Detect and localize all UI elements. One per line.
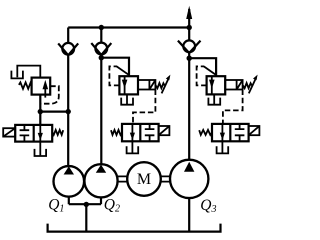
- RV3 pilot connector: [204, 66, 216, 75]
- RV2 drain tank: [126, 94, 128, 104]
- wire Q2 suction: [100, 197, 102, 204]
- relief valve RV1 body: [32, 78, 51, 95]
- wire suction down: [85, 204, 87, 231]
- wire to RV3: [189, 58, 216, 76]
- wire relief tap horizontal: [40, 110, 68, 112]
- RV3 adjustable spring: [243, 83, 252, 88]
- RV2 adjustable spring: [155, 83, 164, 88]
- check valve CV3: [183, 40, 195, 52]
- wire Q3 suction: [188, 198, 190, 232]
- node dot top line / branch3: [187, 25, 192, 30]
- RV3 spring box: [225, 80, 242, 90]
- DV2 blocked ports: [145, 124, 155, 141]
- wire to RV2: [101, 58, 129, 76]
- wire branch2 main vertical: [100, 55, 102, 164]
- directional valve DV1 body: [15, 125, 52, 142]
- RV2 internal flow arrow: [124, 76, 126, 94]
- wire output riser: [188, 9, 190, 28]
- DV2 spring: [111, 130, 122, 135]
- RV2 adjust arrow: [162, 78, 169, 94]
- node dot top line / branch2: [99, 25, 104, 30]
- wire branch3 down to check valve: [188, 28, 190, 42]
- DV1 flow arrow: [39, 125, 41, 142]
- check valve CV1: [62, 43, 74, 55]
- relief valve RV2 body: [119, 76, 138, 94]
- RV1 arrow port stub: [44, 95, 46, 98]
- shaft Q2-M: [118, 176, 128, 181]
- wire Q1 suction: [68, 197, 70, 205]
- pump Q3: [170, 160, 208, 198]
- node dot branch2 relief tap: [99, 55, 104, 60]
- RV3 internal flow arrow: [211, 76, 213, 94]
- RV1 spring: [19, 82, 32, 88]
- wire top pressure line: [68, 26, 189, 28]
- DV3 tank: [221, 141, 223, 153]
- RV1 pilot line dashed: [40, 86, 59, 104]
- DV1 blocked ports: [20, 125, 30, 142]
- RV1 drain tank: [11, 71, 23, 79]
- node dot relief tap: [38, 109, 43, 114]
- svg-text:Q1: Q1: [48, 197, 64, 215]
- DV3 solenoid: [249, 126, 260, 135]
- RV2 pilot connector: [117, 66, 129, 75]
- pump Q1: [54, 166, 85, 197]
- wire branch1 main vertical: [67, 55, 69, 166]
- RV2 vent line dashed to DV2: [133, 90, 155, 124]
- DV1 spring: [52, 130, 63, 135]
- DV2 flow arrow: [131, 124, 133, 141]
- RV3 drain tank: [213, 94, 215, 104]
- svg-text:Q2: Q2: [104, 197, 120, 215]
- DV1 solenoid: [3, 128, 15, 136]
- RV1 bottom port wire to DV1: [39, 95, 41, 125]
- node dot branch1 relief tap: [66, 109, 71, 114]
- motor M: [127, 162, 161, 196]
- DV2 solenoid: [159, 126, 170, 135]
- directional valve DV2 body: [122, 124, 159, 141]
- RV1 top drain port: [17, 66, 40, 78]
- DV2 tank: [131, 141, 133, 153]
- DV3 spring: [199, 130, 212, 135]
- relief valve RV3 body: [207, 76, 226, 94]
- pump Q2: [84, 164, 117, 197]
- shaft M-Q3: [161, 176, 170, 181]
- wire branch3 main vertical: [188, 53, 190, 160]
- node dot branch3 relief tap: [187, 56, 192, 61]
- wire branch1 down to check valve: [67, 28, 69, 44]
- RV2 spring box: [138, 80, 155, 90]
- DV3 flow arrow: [221, 124, 223, 141]
- check valve CV2: [95, 43, 107, 55]
- directional valve DV3 body: [212, 124, 249, 141]
- DV3 blocked ports: [235, 124, 245, 141]
- RV3 vent line dashed to DV3: [223, 90, 243, 124]
- output arrow head: [186, 6, 192, 19]
- DV1 tank: [39, 142, 41, 156]
- wire branch2 down to check valve: [100, 28, 102, 44]
- RV3 adjust arrow: [249, 78, 256, 94]
- tank bottom line: [48, 224, 221, 232]
- wire suction header: [69, 203, 101, 205]
- node dot suction: [84, 202, 89, 207]
- RV1 internal flow arrow: [44, 86, 46, 95]
- RV3 pilot line dashed: [197, 66, 207, 85]
- svg-text:M: M: [137, 171, 151, 188]
- RV2 pilot line dashed: [109, 66, 119, 85]
- svg-text:Q3: Q3: [200, 197, 216, 215]
